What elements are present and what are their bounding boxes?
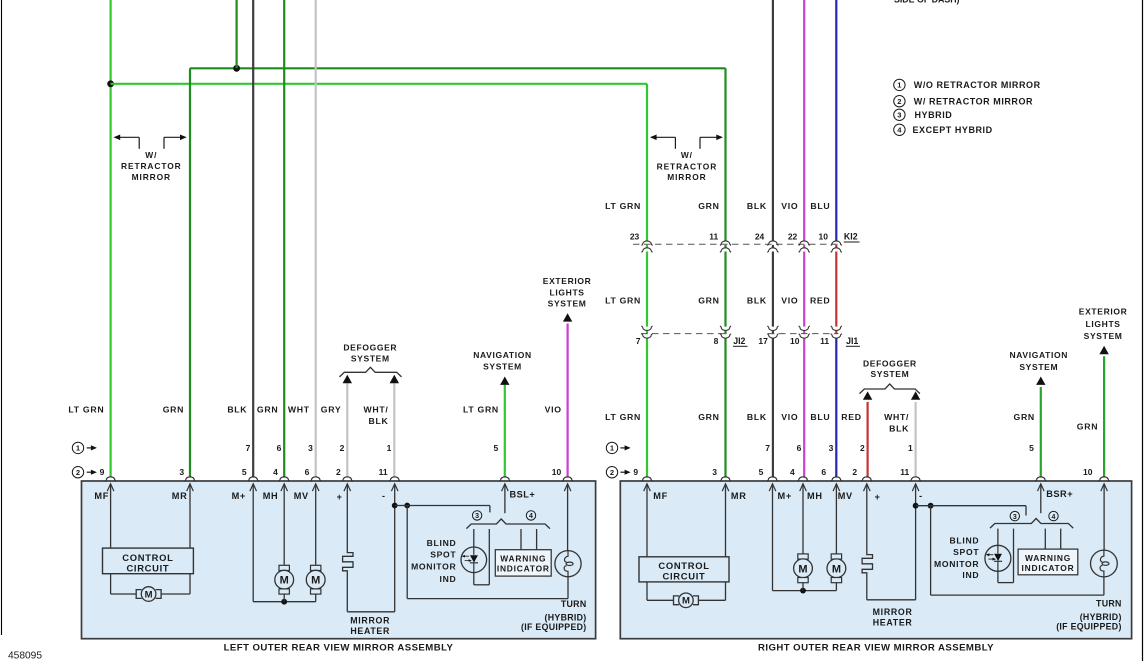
svg-text:VIO: VIO [781,201,798,211]
svg-text:CONTROL: CONTROL [122,552,173,563]
svg-text:(IF EQUIPPED): (IF EQUIPPED) [1056,622,1121,632]
svg-text:7: 7 [765,443,770,453]
svg-text:W/: W/ [145,150,157,160]
svg-text:3: 3 [179,467,184,477]
svg-text:10: 10 [819,232,829,242]
svg-text:3: 3 [1013,514,1017,521]
svg-text:TURN: TURN [1096,599,1122,609]
svg-text:INDICATOR: INDICATOR [1022,563,1075,573]
svg-text:GRN: GRN [698,412,719,422]
svg-text:6: 6 [797,443,802,453]
svg-text:M: M [798,563,807,575]
svg-text:TURN: TURN [561,599,587,609]
svg-text:GRN: GRN [698,201,719,211]
svg-text:RETRACTOR: RETRACTOR [657,161,718,171]
svg-text:GRN: GRN [698,296,719,306]
svg-text:-: - [919,491,922,501]
svg-text:2: 2 [76,468,80,477]
svg-text:24: 24 [755,232,765,242]
svg-text:11: 11 [820,336,829,346]
svg-text:W/O RETRACTOR MIRROR: W/O RETRACTOR MIRROR [914,80,1041,90]
svg-text:10: 10 [552,467,562,477]
svg-text:LT GRN: LT GRN [68,405,104,415]
svg-text:MV: MV [294,491,309,501]
svg-text:4: 4 [529,513,533,520]
svg-text:4: 4 [1052,514,1056,521]
svg-text:10: 10 [790,336,800,346]
svg-text:HEATER: HEATER [873,617,913,627]
svg-text:BLU: BLU [810,412,830,422]
svg-text:DEFOGGER: DEFOGGER [863,358,917,368]
svg-text:CIRCUIT: CIRCUIT [663,570,706,581]
svg-text:EXTERIOR: EXTERIOR [1079,307,1128,317]
svg-text:7: 7 [636,336,641,346]
svg-text:2: 2 [852,467,857,477]
svg-text:HEATER: HEATER [350,626,390,636]
svg-text:MIRROR: MIRROR [350,616,390,626]
svg-text:M: M [311,575,320,587]
svg-text:M: M [832,563,841,575]
svg-text:BLU: BLU [810,201,830,211]
svg-text:2: 2 [336,467,341,477]
svg-text:EXTERIOR: EXTERIOR [543,276,592,286]
svg-text:BLK: BLK [889,423,909,433]
svg-text:RETRACTOR: RETRACTOR [121,161,182,171]
svg-text:11: 11 [379,467,388,477]
svg-text:LT GRN: LT GRN [605,296,641,306]
svg-text:WARNING: WARNING [500,554,546,564]
svg-text:EXCEPT HYBRID: EXCEPT HYBRID [913,125,993,135]
svg-text:RED: RED [810,296,830,306]
svg-text:MH: MH [807,491,823,501]
svg-text:GRN: GRN [257,405,278,415]
svg-text:LEFT OUTER REAR VIEW MIRROR AS: LEFT OUTER REAR VIEW MIRROR ASSEMBLY [224,642,454,653]
svg-text:(HYBRID): (HYBRID) [1080,612,1122,622]
svg-text:BLK: BLK [227,405,247,415]
svg-text:W/ RETRACTOR MIRROR: W/ RETRACTOR MIRROR [914,97,1033,107]
svg-text:SPOT: SPOT [430,550,456,560]
svg-text:BSL+: BSL+ [510,489,536,499]
svg-text:MONITOR: MONITOR [411,562,456,572]
svg-text:GRN: GRN [1077,422,1098,432]
svg-text:11: 11 [709,232,718,242]
svg-text:GRN: GRN [163,405,184,415]
svg-text:BLIND: BLIND [950,535,980,545]
svg-text:WHT: WHT [288,405,310,415]
svg-text:GRN: GRN [1013,412,1034,422]
svg-text:SYSTEM: SYSTEM [870,369,909,379]
svg-text:3: 3 [897,111,901,120]
svg-text:LIGHTS: LIGHTS [1086,319,1121,329]
svg-text:3: 3 [475,513,479,520]
svg-text:M: M [145,589,153,600]
svg-text:BSR+: BSR+ [1046,489,1073,499]
svg-text:NAVIGATION: NAVIGATION [1009,350,1068,360]
svg-text:MF: MF [94,491,109,501]
svg-text:VIO: VIO [781,296,798,306]
svg-text:KI2: KI2 [844,232,858,242]
svg-text:LIGHTS: LIGHTS [550,288,585,298]
svg-text:HYBRID: HYBRID [915,110,953,120]
svg-text:23: 23 [630,232,640,242]
svg-text:7: 7 [246,443,251,453]
svg-text:3: 3 [829,443,834,453]
svg-text:SYSTEM: SYSTEM [1084,331,1123,341]
svg-text:+: + [337,492,342,502]
svg-text:BLK: BLK [747,412,767,422]
svg-text:SYSTEM: SYSTEM [1019,362,1058,372]
svg-text:IND: IND [439,574,456,584]
svg-text:JI1: JI1 [846,336,858,346]
svg-text:WHT/: WHT/ [364,405,389,415]
svg-text:BLK: BLK [369,416,389,426]
svg-text:8: 8 [714,336,719,346]
svg-text:5: 5 [242,467,247,477]
svg-text:SYSTEM: SYSTEM [351,353,390,363]
svg-text:LT GRN: LT GRN [463,405,499,415]
svg-text:17: 17 [758,336,768,346]
svg-text:MONITOR: MONITOR [934,559,979,569]
svg-text:IND: IND [962,570,979,580]
svg-text:5: 5 [759,467,764,477]
svg-text:22: 22 [788,232,798,242]
svg-text:WARNING: WARNING [1025,553,1071,563]
svg-text:BLK: BLK [747,296,767,306]
svg-text:SYSTEM: SYSTEM [483,362,522,372]
svg-text:VIO: VIO [781,412,798,422]
svg-text:SYSTEM: SYSTEM [548,298,587,308]
svg-text:SPOT: SPOT [953,547,979,557]
svg-text:CIRCUIT: CIRCUIT [126,562,169,573]
svg-text:RED: RED [841,412,861,422]
svg-text:1: 1 [387,443,392,453]
svg-text:2: 2 [610,468,614,477]
svg-text:5: 5 [493,443,498,453]
svg-text:BLIND: BLIND [427,538,457,548]
svg-text:2: 2 [340,443,345,453]
svg-text:MF: MF [653,491,668,501]
svg-text:4: 4 [273,467,278,477]
svg-text:5: 5 [1029,443,1034,453]
svg-text:BLK: BLK [747,201,767,211]
svg-text:JI2: JI2 [733,336,745,346]
svg-text:6: 6 [277,443,282,453]
svg-text:DEFOGGER: DEFOGGER [343,343,397,353]
svg-text:10: 10 [1083,467,1093,477]
svg-text:NAVIGATION: NAVIGATION [473,350,532,360]
svg-text:MIRROR: MIRROR [132,172,171,182]
svg-text:MR: MR [172,491,188,501]
svg-text:MIRROR: MIRROR [873,607,913,617]
svg-text:1: 1 [908,443,913,453]
svg-text:MV: MV [838,491,853,501]
svg-text:WHT/: WHT/ [884,412,909,422]
svg-text:(IF EQUIPPED): (IF EQUIPPED) [521,622,586,632]
svg-text:2: 2 [860,443,865,453]
svg-text:M+: M+ [778,491,792,501]
svg-text:SIDE OF DASH): SIDE OF DASH) [894,0,960,5]
svg-text:3: 3 [308,443,313,453]
svg-text:LT GRN: LT GRN [605,412,641,422]
svg-text:6: 6 [821,467,826,477]
svg-text:MR: MR [731,491,747,501]
svg-text:W/: W/ [681,150,693,160]
svg-text:458095: 458095 [8,650,42,661]
svg-text:M: M [682,596,690,607]
svg-text:2: 2 [897,97,901,106]
svg-text:6: 6 [305,467,310,477]
svg-text:4: 4 [790,467,795,477]
svg-text:+: + [875,492,880,502]
svg-text:3: 3 [712,467,717,477]
svg-text:-: - [382,491,385,501]
svg-text:MH: MH [263,491,279,501]
svg-text:9: 9 [633,467,638,477]
svg-text:GRY: GRY [321,405,342,415]
svg-text:9: 9 [100,467,105,477]
svg-text:11: 11 [900,467,909,477]
svg-text:LT GRN: LT GRN [605,201,641,211]
svg-text:VIO: VIO [545,405,562,415]
svg-text:INDICATOR: INDICATOR [497,564,550,574]
svg-text:MIRROR: MIRROR [667,172,706,182]
svg-text:M+: M+ [232,491,246,501]
svg-text:M: M [280,575,289,587]
svg-text:RIGHT OUTER REAR VIEW MIRROR A: RIGHT OUTER REAR VIEW MIRROR ASSEMBLY [758,642,994,653]
